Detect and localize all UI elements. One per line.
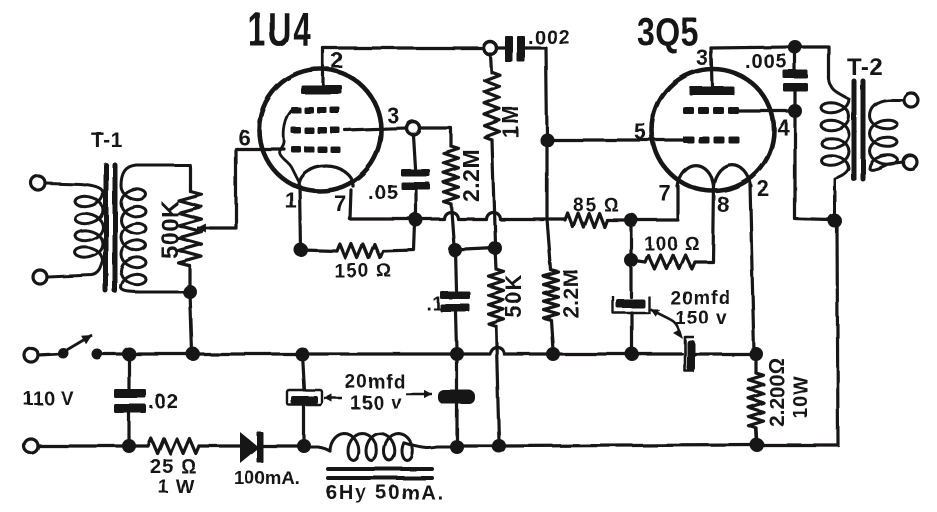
capacitor 20mfd first bar — [291, 396, 318, 404]
junction T-1 node — [186, 347, 200, 361]
resistor 1M lead bottom — [492, 140, 495, 244]
wire 100 to pin 8 — [695, 184, 714, 262]
capacitor .1 plates — [440, 291, 470, 299]
transformer T-1 secondary coil — [121, 165, 190, 292]
junction plate node — [788, 40, 802, 54]
resistor 50K lead top — [495, 248, 496, 269]
capacitor .005 lead top — [793, 53, 796, 70]
svg-text:8: 8 — [717, 192, 730, 217]
resistor 2.2M second lead top — [547, 219, 551, 270]
junction 20mfd-3 bus node — [625, 347, 639, 361]
svg-text:85 Ω: 85 Ω — [573, 195, 620, 216]
wire 1U4 pin3 — [345, 128, 406, 130]
capacitor 20mfd third bracket — [613, 296, 649, 313]
wire 3Q5 pin2 — [750, 184, 754, 352]
junction 1M/50K node — [488, 241, 502, 255]
wire grid node to 3Q5 pin 5 — [547, 138, 684, 141]
wire bus to cap4 — [632, 352, 682, 355]
svg-text:1 W: 1 W — [158, 477, 195, 498]
wire 85 lead — [547, 217, 565, 220]
svg-text:6Hy 50mA.: 6Hy 50mA. — [326, 482, 444, 504]
switch pole — [58, 348, 69, 359]
svg-text:20mfd: 20mfd — [345, 372, 406, 393]
wire 100node to cap3 — [629, 260, 632, 297]
junction pin4 node — [788, 104, 802, 118]
svg-text:150 v: 150 v — [350, 393, 403, 414]
wire bus B 1 — [38, 444, 129, 447]
tube 1U4 envelope — [259, 69, 381, 191]
wire cap4 to pin2 node — [695, 352, 757, 355]
junction 2.2M2 bus node — [546, 347, 560, 361]
wire 25 lead — [129, 444, 148, 447]
tube 1U4 grid row 2 — [291, 127, 301, 134]
inductor core bars — [328, 467, 432, 471]
wire 500K bottom lead — [188, 266, 191, 290]
junction 2200 bottom node — [750, 438, 764, 452]
resistor 100 ohm — [645, 255, 695, 269]
junction T-1/500K bottom — [183, 285, 197, 299]
svg-text:100mA.: 100mA. — [234, 467, 300, 488]
tube 3Q5 plate — [689, 86, 734, 95]
resistor 500K potentiometer — [179, 191, 202, 266]
transformer T-2 primary coil — [821, 79, 849, 216]
wire 1U4 pin7 lead — [350, 190, 351, 219]
capacitor .05 lead bottom — [414, 190, 417, 216]
resistor 150 ohm — [337, 244, 383, 258]
tube 3Q5 envelope — [652, 69, 774, 191]
capacitor 20mfd vertical bracket — [685, 337, 694, 371]
svg-text:T-2: T-2 — [847, 54, 883, 81]
svg-text:110 V: 110 V — [23, 389, 74, 410]
wire bus A right — [553, 352, 631, 355]
wire 85 node down — [629, 220, 632, 260]
tube 3Q5 pin 3 lead — [711, 48, 712, 86]
label arrow to cap4 — [668, 318, 680, 334]
wire .002 to 3Q5 grid column — [524, 48, 547, 136]
tube 1U4 filament — [299, 166, 353, 186]
svg-text:1: 1 — [285, 188, 298, 213]
svg-text:T-1: T-1 — [91, 129, 123, 152]
junction 50K bottom node — [492, 439, 506, 453]
tube 1U4 grid row 1 — [291, 107, 301, 114]
svg-text:6: 6 — [238, 125, 251, 150]
transformer T-2 core — [852, 81, 857, 179]
junction .02 node bottom — [122, 439, 136, 453]
tube 3Q5 grid row 1 — [683, 136, 694, 143]
junction .02 node top — [122, 347, 136, 361]
svg-text:7: 7 — [334, 191, 347, 216]
tube 1U4 grid row 3 — [291, 146, 301, 153]
resistor 85 ohm — [565, 213, 607, 227]
tube 3Q5 filament — [677, 165, 751, 186]
diode 100mA — [240, 432, 259, 463]
transformer T-1 core — [104, 165, 109, 291]
capacitor 20mfd second — [438, 390, 475, 404]
wire plate node to T-2 — [795, 47, 829, 79]
svg-text:50K: 50K — [501, 273, 526, 318]
wire cap1 to bus B — [302, 405, 305, 442]
wire pin4 node down — [795, 111, 830, 220]
wire up to 3Q5 pin 7 — [631, 186, 678, 220]
capacitor .02 plates — [114, 389, 146, 398]
terminal 110V bottom — [24, 439, 38, 453]
wire switch to bus — [97, 352, 126, 355]
resistor 25 ohm — [148, 439, 199, 454]
tube 1U4 grid side connector — [280, 111, 299, 182]
wire 500K top lead — [188, 165, 191, 191]
label 20mfd arrows left — [324, 397, 342, 400]
svg-text:25 Ω: 25 Ω — [150, 456, 197, 478]
resistor 2.2M second lead bottom — [551, 320, 553, 350]
svg-text:2: 2 — [331, 48, 344, 73]
svg-text:.02: .02 — [148, 391, 179, 413]
resistor 1M — [485, 72, 500, 140]
svg-text:3: 3 — [387, 103, 400, 128]
junction open circle top — [484, 42, 497, 55]
transformer T-1 primary coil — [46, 183, 103, 277]
junction 100 ohm node — [624, 253, 638, 267]
transformer T-2 secondary coil — [870, 100, 904, 170]
wire bus pin7 run — [350, 212, 547, 219]
svg-text:100 Ω: 100 Ω — [644, 234, 701, 255]
capacitor 20mfd vertical bar — [687, 340, 695, 371]
terminal input bottom — [33, 270, 47, 284]
terminal input top — [31, 176, 45, 190]
resistor 2.2M first — [444, 146, 459, 204]
capacitor .02 lead top — [127, 354, 130, 388]
resistor 50K — [489, 269, 504, 326]
junction choke left node — [297, 439, 311, 453]
junction pin1 node — [294, 243, 308, 257]
wire 3Q5 pin4 — [739, 109, 788, 112]
capacitor .05 plates — [401, 169, 430, 177]
junction choke right node — [450, 440, 464, 454]
svg-text:2: 2 — [757, 176, 770, 201]
inductor 6Hy 50mA choke — [304, 434, 452, 461]
wire 20mfd2 bottom lead — [455, 404, 458, 443]
wire pin3 to 2.2M — [420, 128, 451, 146]
tube 1U4 plate — [301, 85, 342, 94]
svg-text:150 Ω: 150 Ω — [334, 261, 393, 282]
wire diode to choke node — [263, 444, 301, 447]
wire 150 lead right — [383, 223, 415, 251]
svg-text:.1: .1 — [426, 294, 444, 315]
svg-text:7: 7 — [658, 180, 671, 205]
wire choke node run — [457, 444, 499, 447]
wire 3Q5 pin3 top run — [711, 47, 788, 48]
resistor 2200 lead top — [754, 354, 757, 373]
capacitor 20mfd first outline — [287, 390, 322, 405]
svg-text:1M: 1M — [498, 104, 523, 138]
tube 3Q5 grid row 2 — [683, 107, 694, 114]
svg-text:.002: .002 — [528, 27, 571, 49]
resistor 50K lead bottom — [496, 326, 499, 442]
capacitor .005 plates — [783, 70, 808, 79]
resistor 1M lead top — [490, 54, 491, 72]
capacitor .02 lead bottom — [127, 413, 130, 442]
wire to .002 — [497, 46, 506, 49]
wire 1U4 pin2 top run — [323, 46, 483, 49]
svg-text:3Q5: 3Q5 — [637, 9, 699, 54]
wire cap3 to bus — [630, 313, 633, 350]
svg-text:5: 5 — [634, 119, 647, 144]
terminal output bottom — [903, 155, 917, 169]
wire T-1 bottom to line bus — [190, 292, 192, 352]
capacitor .005 lead bottom — [793, 92, 796, 107]
junction pin1 bus node — [295, 347, 309, 361]
switch blade arrow — [65, 335, 92, 351]
wire 150 lead left — [301, 250, 337, 251]
capacitor .002 plates — [505, 36, 513, 62]
wire pin1 1U4 — [300, 186, 301, 250]
svg-text:2.200Ω: 2.200Ω — [766, 358, 789, 427]
terminal 110V top — [24, 348, 38, 362]
resistor 2.2M first lead bottom — [451, 204, 454, 246]
wire 25 to diode — [199, 444, 241, 447]
wire 110V top — [38, 354, 57, 355]
svg-text:2.2M: 2.2M — [560, 269, 583, 318]
potentiometer wiper arrow — [197, 227, 212, 230]
svg-text:.05: .05 — [368, 182, 399, 204]
svg-text:3: 3 — [696, 45, 709, 70]
wire bus A with hop — [457, 347, 553, 354]
svg-text:500K: 500K — [157, 199, 184, 259]
wire wiper to pin 6 — [210, 149, 284, 228]
wire 85 to pin7 3Q5 — [607, 218, 631, 221]
svg-text:2.2M: 2.2M — [458, 149, 484, 202]
junction 85/100 node — [624, 213, 638, 227]
junction T-2 bottom node — [828, 214, 842, 228]
svg-text:4: 4 — [777, 115, 790, 140]
wire bus B right — [499, 445, 757, 446]
svg-text:1U4: 1U4 — [248, 2, 313, 56]
resistor 2200 lead bottom — [756, 428, 757, 445]
junction 2.2M/.1 node — [448, 243, 462, 257]
resistor 100 ohm lead — [631, 260, 645, 262]
junction pin2/2200 node — [749, 347, 763, 361]
wire pin3 to .05 — [413, 135, 415, 168]
wire bus A mid — [302, 352, 457, 355]
wire grid node down — [545, 140, 548, 219]
resistor 2.200 ohm 10W — [749, 373, 764, 428]
junction open circle pin3 — [407, 122, 420, 135]
switch throw — [92, 349, 103, 360]
label 20mfd arrows right — [406, 393, 432, 396]
wire bus B corner up right edge — [757, 223, 838, 445]
capacitor .1 lead bottom — [456, 312, 457, 350]
svg-text:10W: 10W — [790, 375, 812, 419]
junction grid node — [540, 133, 554, 147]
junction .05/150 node — [409, 213, 423, 227]
terminal output top — [904, 93, 918, 107]
capacitor 20mfd third bar — [616, 299, 645, 308]
wire pin1 bus to cap — [302, 354, 304, 390]
wire bus A left — [129, 352, 302, 355]
resistor 2.2M second — [544, 270, 559, 320]
svg-text:150 v: 150 v — [675, 308, 728, 329]
svg-text:.005: .005 — [745, 51, 788, 73]
svg-text:20mfd: 20mfd — [670, 288, 731, 309]
junction 20mfd-2 node — [450, 347, 464, 361]
label arrow to cap3 — [650, 309, 668, 318]
tube 1U4 pin 2 lead — [321, 48, 324, 85]
wire jumper — [455, 248, 495, 250]
wire 20mfd2 top lead — [455, 354, 458, 391]
capacitor .1 lead top — [455, 250, 456, 290]
